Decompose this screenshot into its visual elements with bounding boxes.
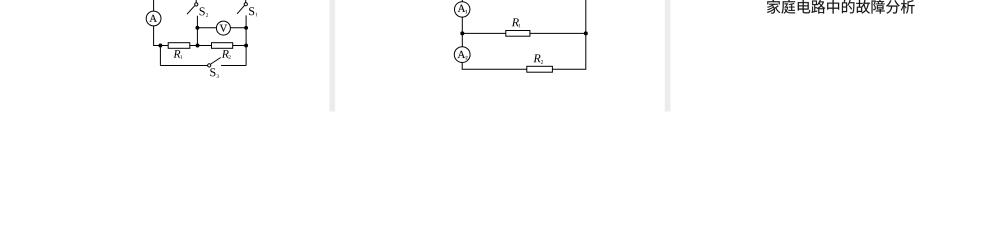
wire: R2 to right rail corner then up to top edge xyxy=(552,0,585,69)
junction node voltmeter right xyxy=(244,26,248,30)
meter letter A (left ammeter) xyxy=(149,15,157,22)
meter letter A1 xyxy=(458,5,466,12)
resistor R1 (left circuit) body xyxy=(168,43,190,49)
value label R2 (middle) xyxy=(533,54,540,62)
wire: top feed into ammeter A1 xyxy=(461,0,463,2)
label S2 xyxy=(200,7,205,15)
value label R1 (middle) xyxy=(512,18,519,26)
switch S3 hinge circle xyxy=(208,64,211,67)
wire: switch S2 top lead xyxy=(195,0,197,3)
junction node at R2 right xyxy=(244,44,248,48)
junction node between A1 and A2 xyxy=(460,31,464,35)
wire: left rail from S2 lower terminal down to resistor row xyxy=(196,16,198,46)
wire: ammeter A2 down then right to resistor R2 xyxy=(462,63,527,70)
wire: switch S3 right lead xyxy=(221,65,246,67)
resistor R1 (middle circuit) body xyxy=(506,31,530,37)
switch S2 blade (open) xyxy=(187,6,195,15)
switch S1 blade (open) xyxy=(237,5,244,13)
wire: ammeter A down to bottom-left corner into resistor row xyxy=(154,26,169,46)
switch S1 hinge circle xyxy=(244,3,247,6)
wire: bottom branch run to switch S3 xyxy=(160,65,207,67)
wire: junction across to resistor R1 (middle) xyxy=(462,32,506,34)
wire: voltmeter branch right segment xyxy=(230,27,246,29)
value label R1 (left) xyxy=(173,50,180,58)
wire: R2 to right rail xyxy=(233,45,246,47)
ammeter A2 xyxy=(454,47,470,63)
wire: between R1 and R2 xyxy=(190,45,212,47)
junction node at R1 left xyxy=(158,44,162,48)
ammeter A xyxy=(146,11,161,26)
meter letter A2 xyxy=(458,51,466,58)
switch S2 hinge circle xyxy=(195,3,198,6)
title text: 家庭电路中的故障分析 xyxy=(767,0,915,14)
junction node right rail at R1 row xyxy=(584,31,588,35)
resistor R2 (left circuit) body xyxy=(212,43,233,49)
wire: top feed into ammeter A xyxy=(153,0,155,11)
switch S3 blade (open) xyxy=(211,58,221,65)
value label R2 (left) xyxy=(222,50,229,58)
wire: bottom branch left drop xyxy=(159,46,161,66)
junction node between R1 and R2 xyxy=(196,44,200,48)
wire: R1 to right rail junction xyxy=(530,32,586,34)
label S3 xyxy=(210,68,215,76)
resistor R2 (middle circuit) body xyxy=(527,66,553,72)
wire: ammeter A1 down through junction to ammeter A2 xyxy=(461,17,463,47)
wire: switch S1 top lead xyxy=(245,0,247,3)
wire: right rail from S1 down through resistor row to bottom branch xyxy=(245,15,247,65)
meter letter V (voltmeter) xyxy=(220,25,227,32)
junction node voltmeter left xyxy=(195,26,199,30)
wire: voltmeter branch left segment xyxy=(197,27,216,29)
label S1 xyxy=(249,7,254,15)
ammeter A1 xyxy=(455,2,470,17)
voltmeter V xyxy=(216,21,230,35)
